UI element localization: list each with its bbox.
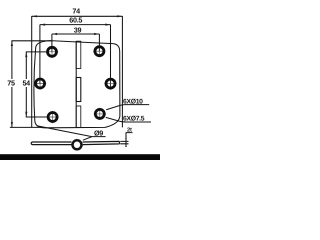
dimension 54 extension top xyxy=(26,51,46,53)
svg-text:2t: 2t xyxy=(127,127,132,134)
hole ring top-right xyxy=(95,47,104,56)
leader line 6XO10 xyxy=(106,105,149,110)
arrow 54 top xyxy=(25,52,27,57)
svg-text:75: 75 xyxy=(7,79,15,88)
svg-text:74: 74 xyxy=(72,7,80,16)
dimension 75 extension bottom xyxy=(10,126,42,128)
dimension 2t xyxy=(120,133,132,147)
dimension 74 line xyxy=(32,15,123,17)
hole ring mid-left xyxy=(36,79,45,88)
side view bar right leaf xyxy=(83,141,120,144)
text labels xyxy=(7,7,144,138)
knuckle segment middle xyxy=(76,78,81,102)
dimension 39 line xyxy=(52,33,100,35)
arrow 60.5 right xyxy=(105,24,110,26)
leader line O9 short xyxy=(83,137,106,141)
dimension 54 extension bottom xyxy=(26,116,47,118)
arrow 2t bottom xyxy=(125,144,127,147)
dimension 75 extension top xyxy=(11,40,52,42)
arrowheads xyxy=(11,15,127,147)
svg-text:6XØ10: 6XØ10 xyxy=(123,99,143,106)
arrow 74 left xyxy=(32,15,37,17)
knuckle segment top xyxy=(76,41,81,68)
holes: rings xyxy=(36,47,115,122)
knuckle joint centerline xyxy=(75,41,77,127)
arrow 75 bottom xyxy=(11,122,13,127)
hole ring bottom-right xyxy=(95,109,104,118)
arrow 75 top xyxy=(11,41,13,46)
dimension 54 line xyxy=(25,52,27,117)
dimension 75 line xyxy=(11,41,13,128)
svg-text:6XØ7.5: 6XØ7.5 xyxy=(123,116,145,123)
hinge leaf outline xyxy=(34,41,120,128)
hole cross bottom-right xyxy=(94,108,106,120)
leader line 6XO7.5 xyxy=(106,117,151,122)
arrow 74 right xyxy=(117,15,122,17)
side view barrel circle xyxy=(73,140,82,149)
svg-text:60.5: 60.5 xyxy=(69,15,82,24)
holes: centerline crosses xyxy=(34,45,117,123)
hole cross mid-left xyxy=(34,77,46,89)
arrow 60.5 left xyxy=(40,24,45,26)
arrow 39 right xyxy=(94,33,99,35)
wire extension line right (74 dim / plate outer right) xyxy=(121,16,123,127)
hole ring bottom-left xyxy=(48,113,57,122)
arrow 54 bottom xyxy=(25,112,27,117)
extension line to hole top-left xyxy=(51,34,53,52)
svg-text:39: 39 xyxy=(74,25,82,34)
leader line O9 long xyxy=(37,126,92,137)
bottom black band xyxy=(0,154,160,160)
arrow 2t top xyxy=(125,138,127,141)
extension line to hole mid-left xyxy=(39,25,41,84)
side view bar left leaf xyxy=(31,142,71,145)
wire extension line left (74 dim / plate outer left) xyxy=(31,16,33,127)
svg-text:54: 54 xyxy=(22,79,30,88)
svg-text:Ø9: Ø9 xyxy=(94,128,103,137)
hole cross mid-right xyxy=(104,78,116,90)
hole ring top-left xyxy=(48,47,57,56)
hole cross bottom-left xyxy=(47,111,59,123)
dimension 60.5 line xyxy=(40,24,111,26)
hole ring mid-right xyxy=(106,79,115,88)
arrow 39 left xyxy=(52,33,57,35)
extension line to hole mid-right xyxy=(110,25,112,90)
hole cross top-right xyxy=(93,45,105,57)
extension line to hole top-right xyxy=(98,34,100,51)
knuckle segment bottom xyxy=(76,106,81,127)
hole cross top-left xyxy=(46,46,58,58)
